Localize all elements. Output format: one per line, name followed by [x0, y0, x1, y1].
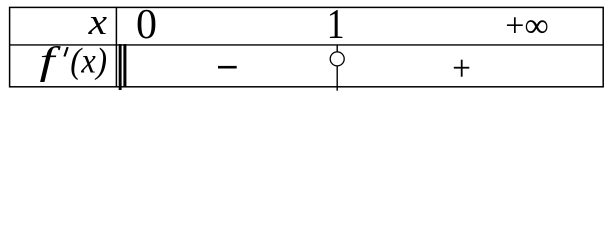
plus sign: [454, 60, 470, 77]
zero circle at x=1: [330, 52, 344, 66]
vertical line at x=1 (upper segment): [336, 45, 338, 52]
column divider (between header column and values): [115, 7, 117, 88]
svg-text:+∞: +∞: [505, 7, 548, 44]
table frame: [10, 7, 604, 86]
value +infinity: [505, 7, 548, 44]
value 0: [136, 2, 157, 48]
header variable x: [88, 2, 108, 43]
svg-text:f: f: [40, 39, 62, 82]
svg-text:x: x: [88, 2, 108, 43]
svg-text:(x): (x): [70, 41, 107, 81]
row separator: [9, 44, 603, 46]
svg-text:0: 0: [136, 2, 157, 48]
minus sign: [218, 66, 237, 69]
double bar: f' undefined at x=0: [119, 44, 127, 90]
row label f'(x): [40, 39, 108, 82]
value 1: [327, 1, 345, 47]
vertical line at x=1 (lower segment, crosses bottom border): [336, 66, 338, 91]
svg-text:1: 1: [327, 1, 345, 47]
